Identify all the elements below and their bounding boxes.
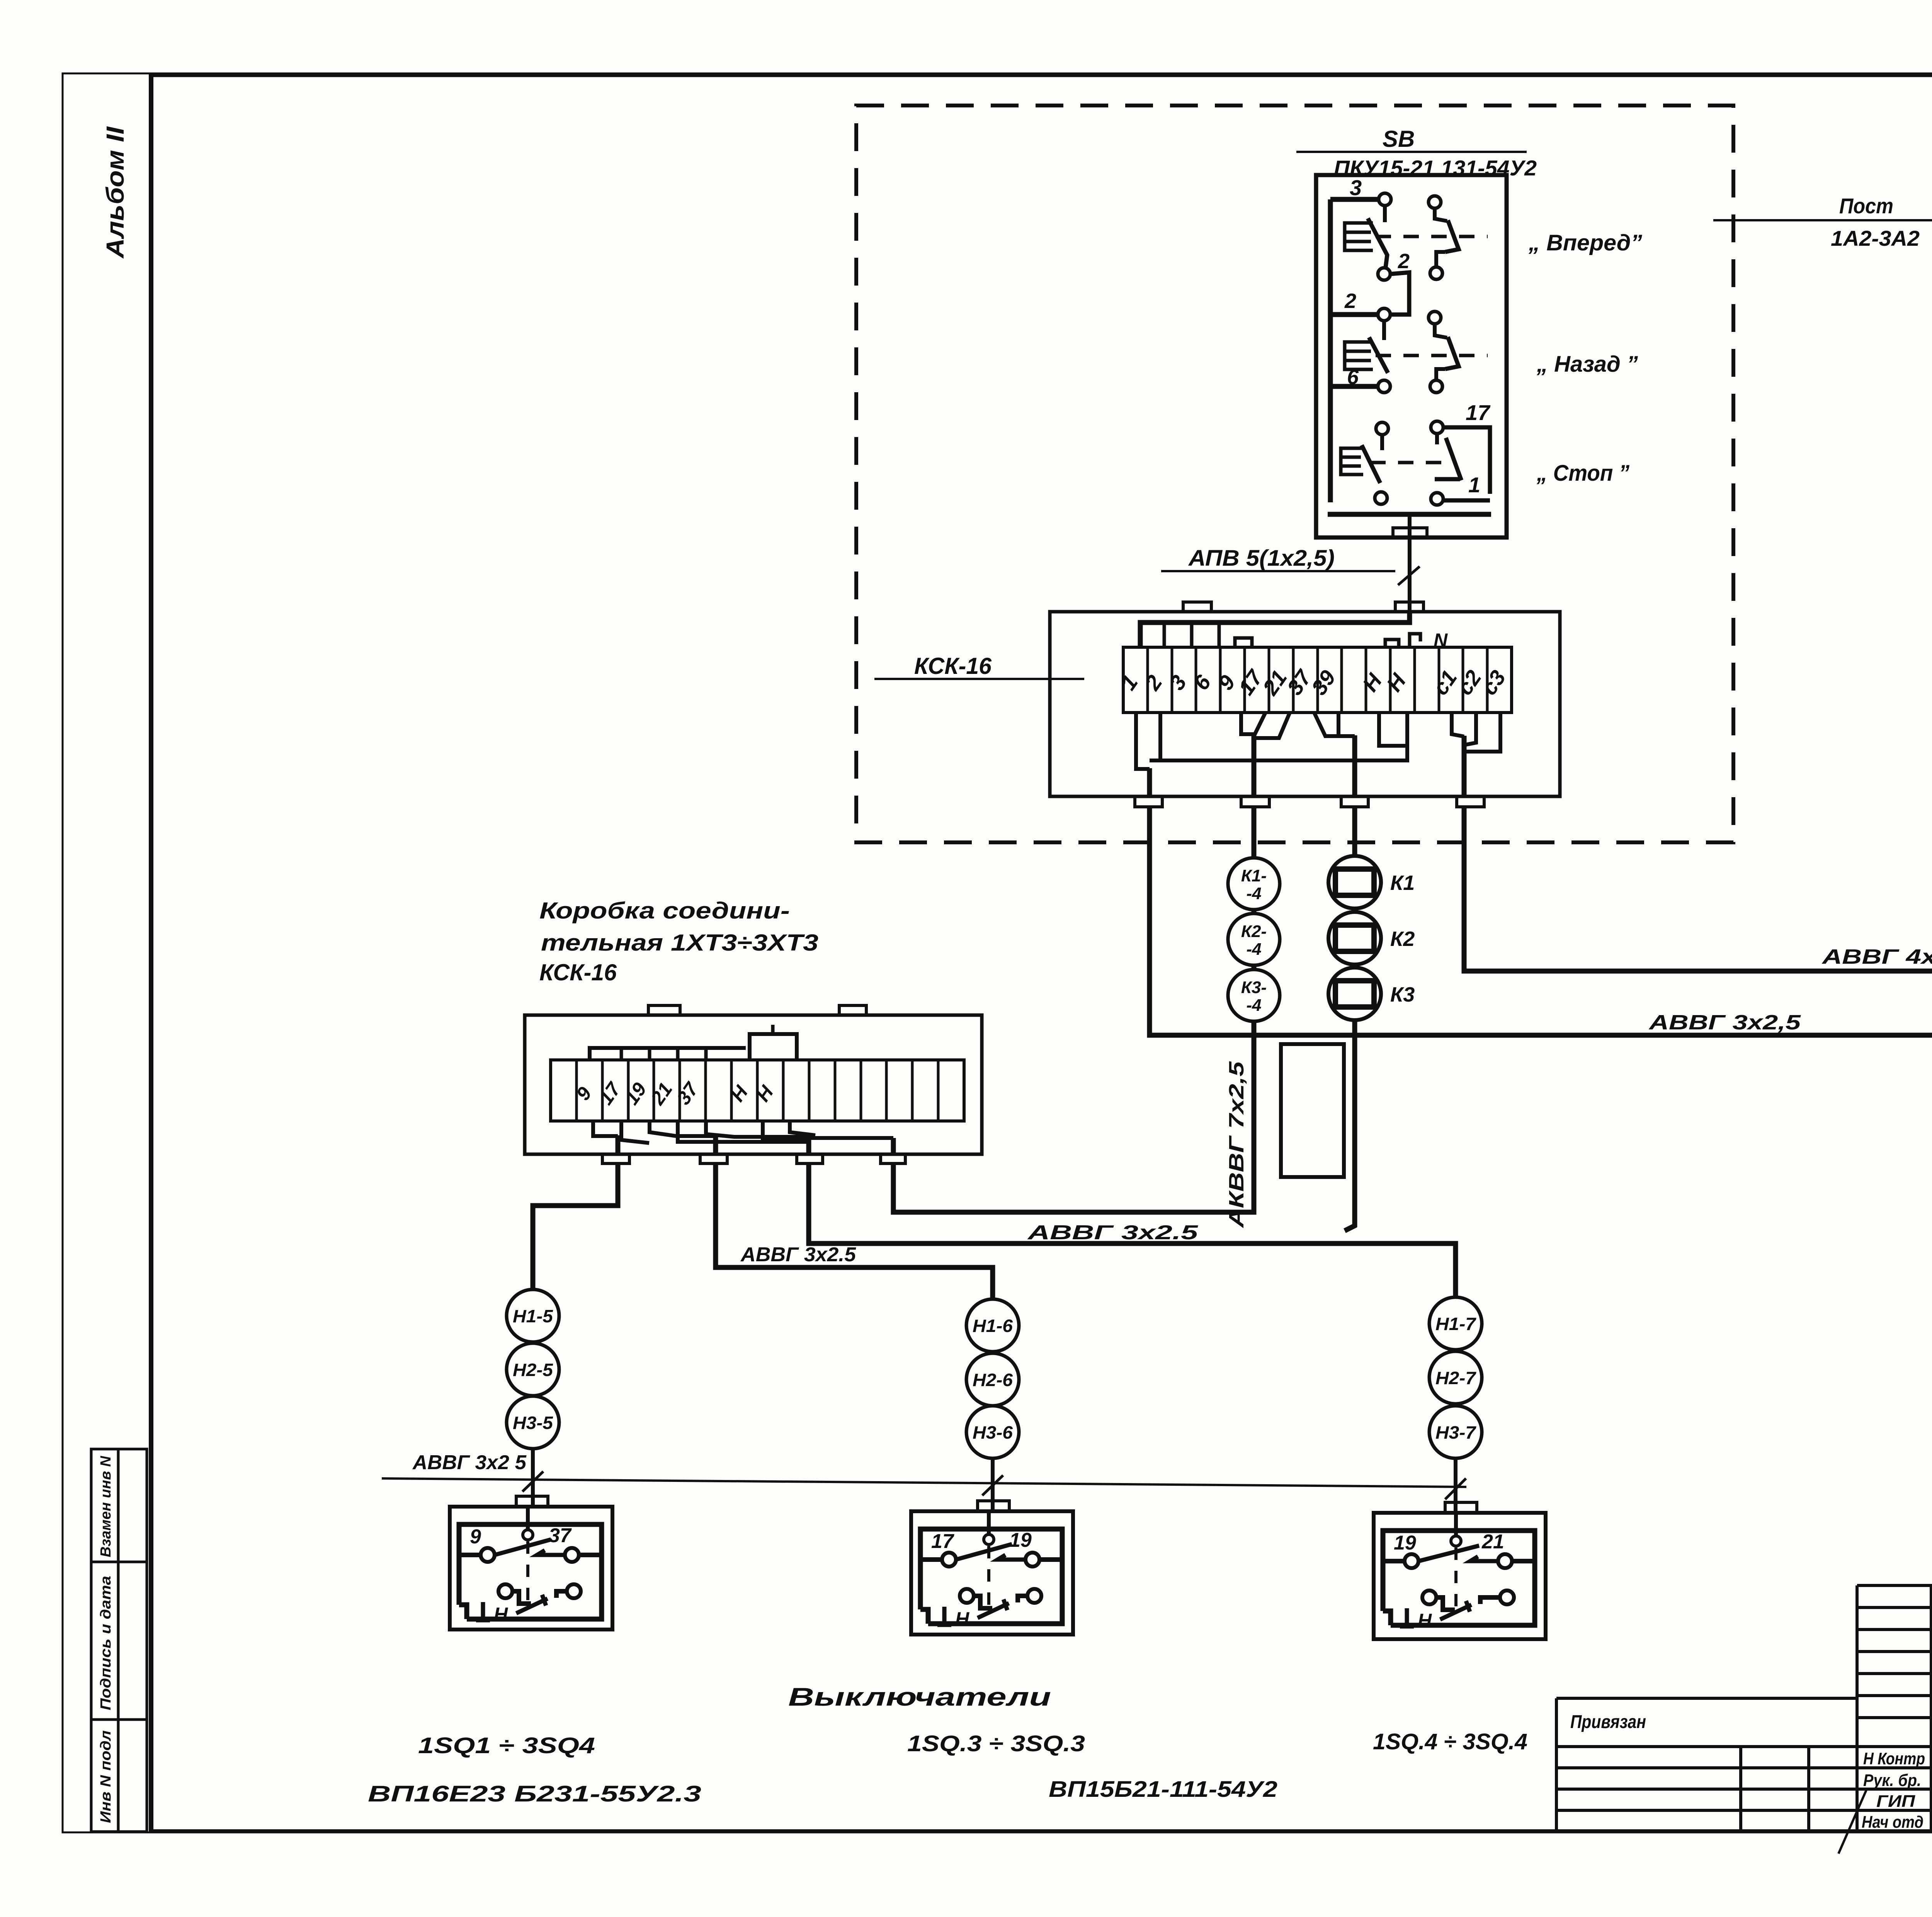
SB mounting tab (1393, 528, 1427, 538)
svg-text:АВВГ 3х2,5: АВВГ 3х2,5 (1648, 1011, 1801, 1034)
XT output tails (1150, 735, 1464, 796)
svg-text:Н: Н (494, 1604, 508, 1625)
svg-text:Н Контр: Н Контр (1863, 1749, 1925, 1768)
marker К2-4 (1228, 913, 1280, 965)
svg-text:тельная 1ХТ3÷3ХТ3: тельная 1ХТ3÷3ХТ3 (541, 930, 818, 956)
svg-text:1SQ.3 ÷ 3SQ.3: 1SQ.3 ÷ 3SQ.3 (907, 1731, 1085, 1756)
junction box 1ХТ3-3ХТ3 body (525, 1015, 982, 1154)
SB contact group Назад (1330, 289, 1488, 393)
junction box XT3 terminal strip (551, 1060, 964, 1121)
output tails (618, 1135, 893, 1154)
svg-text:КСК-16: КСК-16 (914, 653, 992, 679)
svg-text:17: 17 (931, 1530, 954, 1553)
contactor К2 (1328, 912, 1415, 964)
wire H-7 to switch 3 (1454, 1458, 1458, 1513)
svg-text:1SQ1 ÷ 3SQ4: 1SQ1 ÷ 3SQ4 (418, 1733, 595, 1758)
jumper hook over terminal 9 (1235, 638, 1252, 647)
svg-text:Выключатели: Выключатели (788, 1682, 1051, 1711)
SB contact group Вперед (1330, 175, 1488, 309)
wire H-6 to switch 2 (991, 1458, 995, 1511)
pushbutton station SB title (1296, 126, 1537, 180)
marker Н1-6 (966, 1299, 1019, 1352)
svg-text:К2: К2 (1390, 927, 1415, 951)
pushbutton station SB body (1316, 175, 1507, 538)
SB internal bus (1328, 199, 1333, 502)
limit switch 1SQ4-3SQ4 (1374, 1502, 1546, 1639)
svg-text:Н2-6: Н2-6 (973, 1370, 1013, 1390)
svg-text:9: 9 (470, 1526, 481, 1548)
svg-text:АВВГ 4х2,5: АВВГ 4х2,5 (1821, 945, 1932, 968)
wire stubs to terminals 2,3,6 (1164, 623, 1219, 647)
svg-text:К1: К1 (1390, 871, 1415, 895)
svg-text:Подпись и дата: Подпись и дата (98, 1576, 114, 1710)
svg-text:К3: К3 (1390, 983, 1415, 1006)
wire feed inside XT (1140, 612, 1410, 647)
svg-text:Н3-6: Н3-6 (973, 1422, 1013, 1442)
marker Н2-5 (507, 1343, 559, 1396)
svg-text:ВП15Б21-111-54У2: ВП15Б21-111-54У2 (1049, 1777, 1277, 1802)
wire to column H-6 (716, 1163, 993, 1299)
svg-text:ВП16Е23 Б231-55У2.3: ВП16Е23 Б231-55У2.3 (368, 1781, 701, 1806)
svg-text:АПВ 5(1х2,5): АПВ 5(1х2,5) (1188, 546, 1335, 571)
svg-text:-4: -4 (1246, 884, 1261, 903)
svg-text:АВВГ 3х2.5: АВВГ 3х2.5 (740, 1243, 856, 1266)
svg-text:АКВВГ 7х2,5: АКВВГ 7х2,5 (1225, 1061, 1248, 1229)
svg-text:К1-: К1- (1241, 866, 1267, 885)
svg-text:N: N (1434, 629, 1448, 651)
junction box caption (539, 898, 818, 985)
svg-text:1А2-3А2: 1А2-3А2 (1831, 226, 1920, 250)
terminal block XT (KCK-16 in post) (1123, 647, 1512, 713)
svg-text:Нач отд: Нач отд (1862, 1813, 1923, 1832)
svg-text:21: 21 (1481, 1531, 1504, 1553)
marker Н3-7 (1429, 1406, 1482, 1458)
contactor К1 (1328, 856, 1415, 908)
svg-text:Пост: Пост (1839, 194, 1893, 218)
limit switch 1SQ1-3SQ4 (450, 1496, 612, 1630)
svg-text:Н1-7: Н1-7 (1435, 1314, 1477, 1334)
svg-text:Рук. бр.: Рук. бр. (1863, 1771, 1921, 1790)
post enclosure dashed boundary (856, 105, 1733, 842)
limit switch 1SQ3-3SQ3 (911, 1501, 1073, 1635)
svg-text:Н: Н (1418, 1610, 1432, 1631)
svg-text:3: 3 (1350, 175, 1362, 200)
svg-text:SB: SB (1383, 126, 1415, 152)
svg-text:ГИП: ГИП (1876, 1792, 1915, 1811)
svg-text:К3-: К3- (1241, 978, 1267, 997)
svg-text:„ Вперед”: „ Вперед” (1528, 230, 1642, 255)
cable designation box (1281, 1044, 1344, 1177)
svg-text:Привязан: Привязан (1570, 1712, 1646, 1732)
jumper wiring below XT (1136, 713, 1500, 769)
box tabs (648, 1005, 680, 1015)
node N hooks (1385, 634, 1420, 647)
marker Н1-5 (507, 1289, 559, 1342)
svg-text:Взамен инв N: Взамен инв N (98, 1455, 114, 1557)
svg-text:-4: -4 (1246, 996, 1261, 1015)
svg-text:Н2-5: Н2-5 (513, 1360, 553, 1380)
wire B (АКВВГ 7х2,5 to junction box) (1252, 807, 1257, 858)
inner bus wiring (590, 1048, 746, 1060)
box mounting tabs (1183, 602, 1211, 612)
svg-text:Альбом II: Альбом II (101, 126, 129, 259)
bottom mounting tabs (1135, 796, 1162, 807)
svg-text:2: 2 (1344, 289, 1356, 313)
wire to column H-5 (533, 1163, 618, 1289)
svg-text:АВВГ 3х2 5: АВВГ 3х2 5 (412, 1451, 527, 1474)
left filing table (91, 1449, 147, 1832)
SB inner bottom wall (1328, 512, 1491, 517)
drawing frame (149, 74, 153, 1832)
svg-text:-4: -4 (1246, 940, 1261, 959)
signature rows (1862, 1749, 1932, 1832)
svg-text:К2-: К2- (1241, 922, 1267, 941)
signatures (scribbles) (1838, 1750, 1932, 1854)
wire to column H-7 (809, 1163, 1456, 1297)
wire SB to XT (1408, 514, 1412, 612)
wire C (relay column) (1352, 807, 1357, 856)
svg-text:Н: Н (955, 1608, 969, 1630)
svg-text:17: 17 (1466, 400, 1491, 425)
svg-text:1: 1 (1468, 473, 1480, 497)
marker Н2-7 (1429, 1351, 1482, 1404)
svg-text:Коробка соедини-: Коробка соедини- (539, 898, 790, 924)
junction box КСК-16 (inside post) (1050, 612, 1560, 796)
svg-text:37: 37 (549, 1524, 572, 1547)
jumper hook over N terminals (750, 1034, 797, 1060)
marker Н3-5 (507, 1396, 559, 1449)
svg-text:Н2-7: Н2-7 (1435, 1368, 1477, 1388)
attachment table (1556, 1698, 1857, 1832)
marker Н3-6 (966, 1406, 1019, 1458)
wire H-5 to switch 1 (531, 1449, 535, 1507)
marker К3-4 (1228, 970, 1280, 1021)
svg-text:„ Назад ”: „ Назад ” (1536, 352, 1638, 377)
wire D (АВВГ 4х2,5 to motors) (1464, 807, 1932, 1099)
svg-text:КСК-16: КСК-16 (539, 959, 617, 985)
bus line АВВГ 3х2,5 (382, 1478, 1466, 1487)
svg-text:Н3-7: Н3-7 (1435, 1422, 1477, 1442)
svg-text:Н1-6: Н1-6 (973, 1316, 1013, 1336)
contactor К3 (1328, 968, 1415, 1020)
svg-text:АВВГ 3х2.5: АВВГ 3х2.5 (1027, 1221, 1199, 1244)
svg-text:Н1-5: Н1-5 (513, 1306, 553, 1326)
SB contact group Стоп (1341, 400, 1491, 505)
svg-text:Н3-5: Н3-5 (513, 1413, 553, 1433)
marker К1-4 (1228, 858, 1280, 910)
svg-text:19: 19 (1009, 1529, 1032, 1551)
bottom tabs (602, 1154, 629, 1163)
marker Н2-6 (966, 1353, 1019, 1406)
svg-text:Инв N подл: Инв N подл (98, 1730, 114, 1823)
jumper wiring below strip (593, 1121, 893, 1143)
svg-text:2: 2 (1398, 250, 1410, 273)
svg-text:19: 19 (1394, 1532, 1416, 1554)
svg-text:1SQ.4 ÷ 3SQ.4: 1SQ.4 ÷ 3SQ.4 (1373, 1729, 1527, 1754)
title block (1857, 1585, 1932, 1832)
svg-text:„ Стоп ”: „ Стоп ” (1536, 461, 1629, 486)
marker Н1-7 (1429, 1297, 1482, 1350)
wire A (АВВГ 3х2,5 to 1SQ2) (1150, 807, 1932, 1102)
node Пост callout (1713, 194, 1932, 250)
